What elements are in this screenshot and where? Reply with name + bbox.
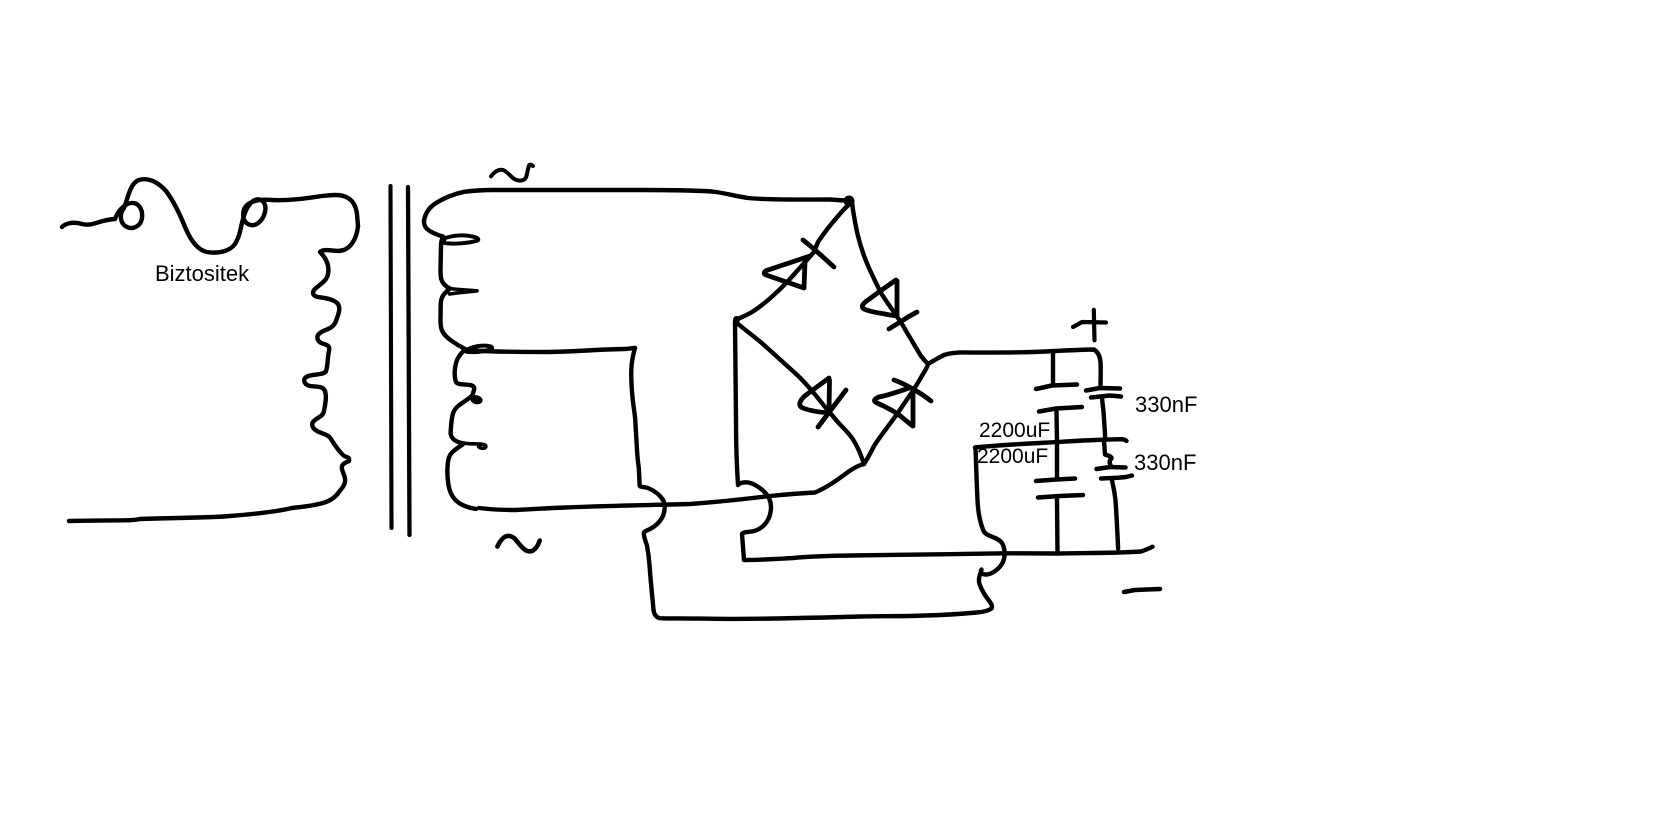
capacitor C2 plate 2 xyxy=(1038,495,1083,498)
wire AC mains lead-in xyxy=(62,219,115,227)
wire mid rail xyxy=(975,439,1127,447)
transformer T1 secondary top winding xyxy=(424,220,466,350)
transformer core line 2 xyxy=(408,187,410,535)
capacitor C1 plate 1 xyxy=(1036,385,1077,390)
label 2200uF lower xyxy=(977,445,1048,469)
wire secondary bottom to bridge node B xyxy=(479,464,864,510)
capacitor C2 lead 2 xyxy=(1055,499,1060,553)
transformer T1 primary winding xyxy=(292,226,358,508)
capacitor C2 2200uF bottom : lead xyxy=(1055,443,1059,478)
wire primary bottom return xyxy=(69,508,292,521)
diode D3 cathode bar xyxy=(818,390,846,427)
capacitor C1 lead 2 xyxy=(1054,412,1059,442)
capacitor C4 lead 2 xyxy=(1112,481,1118,549)
AC tilde top xyxy=(491,165,533,181)
winding loop mark 1 xyxy=(443,235,478,243)
capacitor C4 plate 1 xyxy=(1097,467,1126,469)
winding blob mark xyxy=(471,395,483,404)
minus symbol xyxy=(1124,589,1160,592)
wire bridge NE branch xyxy=(852,202,928,364)
label Biztositek xyxy=(155,261,249,287)
wire mid-rail drop with hop over - rail, to bottom wire xyxy=(976,448,1005,575)
fuse F1 (Biztositek) squiggle xyxy=(115,179,358,252)
diode D2 arrow xyxy=(862,280,897,316)
winding loop mark 3 xyxy=(466,346,492,352)
wire - bottom rail xyxy=(744,547,1153,560)
diode D4 cathode bar xyxy=(894,380,931,401)
capacitor C2 plate 1 xyxy=(1036,479,1075,482)
wire center tap vertical with hop, joins bottom wire xyxy=(631,348,664,618)
winding tick mark with loop xyxy=(454,441,486,451)
plus symbol xyxy=(1073,322,1106,327)
label 2200uF upper xyxy=(979,419,1050,443)
capacitor C4 plate 2 xyxy=(1101,476,1132,479)
label 330nF upper xyxy=(1135,392,1197,418)
diode D3 arrow xyxy=(800,378,830,413)
wire bridge left node down with hop over AC2 xyxy=(735,318,771,560)
capacitor C4 330nF bottom : lead xyxy=(1104,442,1112,465)
wire bridge NW branch xyxy=(740,202,852,318)
wire bridge SE branch xyxy=(864,364,928,464)
transformer core line 1 xyxy=(391,186,392,528)
diode D4 arrow xyxy=(875,388,913,426)
node top (AC1) xyxy=(844,196,855,207)
wire secondary top to bridge xyxy=(424,190,852,221)
capacitor C3 lead 2 xyxy=(1102,399,1105,441)
winding tick mark 2 xyxy=(450,289,478,295)
node left junction blob xyxy=(733,316,740,323)
capacitor C1 2200uF top : lead xyxy=(1051,352,1055,385)
capacitor C3 330nF top : plate 1 xyxy=(1086,388,1120,391)
transformer T1 secondary bottom winding xyxy=(447,352,476,509)
diode D1 arrow xyxy=(764,256,810,288)
AC tilde bottom xyxy=(497,536,539,552)
capacitor C3 plate 2 xyxy=(1091,396,1121,398)
diode D1 cathode bar xyxy=(803,240,834,267)
wire + output rail xyxy=(928,350,1101,388)
capacitor C1 plate 2 xyxy=(1039,407,1082,412)
wire center tap xyxy=(468,348,635,352)
diode D2 cathode bar xyxy=(889,312,917,329)
wire bridge SW branch xyxy=(737,323,864,464)
label 330nF lower xyxy=(1134,450,1196,476)
